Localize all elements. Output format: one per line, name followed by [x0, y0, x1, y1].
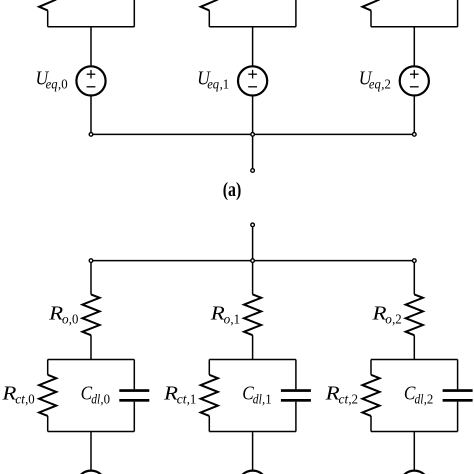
svg-text:(a): (a)	[223, 180, 242, 201]
svg-text:Ueq,2: Ueq,2	[359, 68, 391, 93]
svg-text:Cdl,0: Cdl,0	[81, 382, 110, 407]
svg-text:Rct,2: Rct,2	[325, 383, 358, 408]
svg-text:Ueq,1: Ueq,1	[197, 68, 229, 93]
svg-text:Cdl,2: Cdl,2	[404, 382, 433, 407]
svg-text:Ro,1: Ro,1	[210, 302, 240, 327]
svg-text:Ueq,0: Ueq,0	[36, 68, 68, 93]
svg-text:Ro,0: Ro,0	[48, 302, 78, 327]
svg-text:Cdl,1: Cdl,1	[242, 382, 271, 407]
svg-text:Ro,2: Ro,2	[371, 302, 401, 327]
svg-text:Rct,0: Rct,0	[1, 383, 34, 408]
svg-text:Rct,1: Rct,1	[163, 383, 196, 408]
